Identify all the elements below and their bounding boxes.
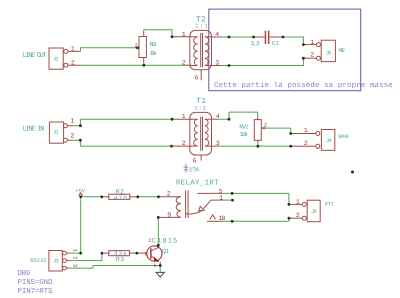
svg-text:1: 1	[304, 127, 308, 134]
svg-text:10k: 10k	[240, 131, 249, 138]
svg-text:RV2: RV2	[239, 123, 249, 130]
svg-text:4: 4	[215, 31, 219, 38]
svg-text:33k: 33k	[114, 250, 127, 257]
svg-text:10k: 10k	[150, 50, 158, 57]
svg-text:2: 2	[167, 190, 171, 197]
svg-text:RELAY_1RT: RELAY_1RT	[176, 180, 219, 188]
svg-text:+5V: +5V	[75, 187, 86, 194]
svg-text:Q1: Q1	[162, 248, 169, 255]
svg-text:4: 4	[216, 113, 220, 120]
svg-text:2: 2	[310, 52, 314, 59]
svg-text:1: 1	[310, 39, 314, 46]
svg-text:PTT: PTT	[325, 201, 335, 208]
svg-text:C1815: C1815	[152, 237, 177, 245]
svg-text:470: 470	[114, 195, 127, 202]
svg-text:1: 1	[71, 46, 75, 53]
svg-text:2: 2	[135, 42, 138, 49]
svg-text:1: 1	[71, 118, 75, 125]
svg-text:2: 2	[71, 133, 75, 140]
svg-text:6: 6	[193, 158, 197, 165]
svg-text:J4: J4	[326, 137, 332, 144]
svg-text:3,3: 3,3	[251, 40, 260, 47]
svg-text:J1: J1	[53, 129, 59, 136]
svg-text:2: 2	[182, 59, 186, 66]
svg-text:6: 6	[195, 75, 199, 82]
svg-text:SPKR: SPKR	[338, 134, 349, 140]
svg-text:DB9: DB9	[18, 269, 31, 278]
svg-text:2: 2	[304, 140, 308, 147]
svg-text:PIN7=RTS: PIN7=RTS	[18, 287, 53, 296]
svg-text:MIC: MIC	[339, 47, 347, 54]
svg-text:J5: J5	[326, 50, 332, 57]
svg-text:2: 2	[182, 140, 186, 147]
svg-text:C: C	[149, 238, 152, 244]
svg-text:LINE IN: LINE IN	[23, 126, 45, 134]
svg-text:E: E	[154, 263, 157, 269]
svg-text:J3: J3	[53, 257, 59, 264]
svg-text:1?A: 1?A	[189, 166, 199, 173]
svg-text:10: 10	[219, 215, 226, 222]
svg-text:9: 9	[167, 212, 171, 219]
svg-text:2: 2	[264, 121, 267, 128]
svg-text:PIN5=GND: PIN5=GND	[18, 278, 53, 287]
svg-text:1: 1	[182, 31, 186, 38]
svg-text:Cette partie la possède sa pro: Cette partie la possède sa propre masse	[214, 81, 393, 90]
svg-text:1 : 1: 1 : 1	[194, 105, 206, 112]
svg-text:LINE OUT: LINE OUT	[23, 52, 47, 60]
svg-text:2: 2	[71, 59, 75, 66]
svg-text:3: 3	[215, 59, 219, 66]
svg-text:J6: J6	[311, 208, 317, 215]
svg-text:RV1: RV1	[150, 41, 158, 48]
svg-text:1: 1	[219, 195, 223, 202]
svg-text:2: 2	[296, 212, 300, 219]
svg-text:1 : 1: 1 : 1	[195, 22, 208, 29]
svg-text:RS232: RS232	[30, 257, 46, 264]
svg-text:1: 1	[182, 113, 186, 120]
svg-text:J2: J2	[53, 55, 59, 62]
svg-text:C1: C1	[272, 40, 279, 47]
svg-text:1: 1	[296, 198, 300, 205]
svg-text:B: B	[145, 251, 148, 257]
svg-text:2: 2	[72, 256, 79, 259]
svg-text:3: 3	[216, 140, 220, 147]
svg-text:3: 3	[72, 264, 79, 267]
